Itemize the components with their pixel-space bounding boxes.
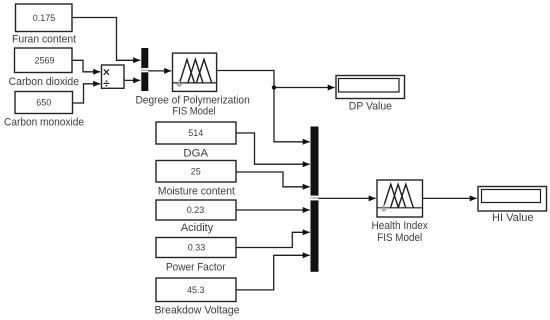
svg-text:2569: 2569 — [34, 56, 54, 66]
svg-text:Degree of Polymerization: Degree of Polymerization — [135, 94, 249, 106]
svg-text:FIS Model: FIS Model — [172, 106, 215, 118]
svg-text:Health Index: Health Index — [372, 220, 429, 232]
svg-text:Power Factor: Power Factor — [166, 261, 226, 273]
svg-text:DGA: DGA — [183, 147, 208, 159]
svg-text:45.3: 45.3 — [187, 285, 205, 295]
svg-text:HI Value: HI Value — [492, 212, 534, 224]
svg-text:650: 650 — [36, 98, 51, 108]
svg-text:0.33: 0.33 — [188, 243, 206, 253]
svg-text:Furan content: Furan content — [12, 34, 76, 46]
svg-text:DP Value: DP Value — [349, 100, 392, 112]
svg-text:FIS Model: FIS Model — [377, 232, 422, 244]
svg-text:514: 514 — [188, 128, 203, 138]
svg-text:0.175: 0.175 — [33, 13, 56, 23]
svg-text:Carbon dioxide: Carbon dioxide — [9, 76, 80, 88]
svg-text:0.23: 0.23 — [187, 205, 205, 215]
svg-text:Breakdow Voltage: Breakdow Voltage — [155, 304, 240, 316]
svg-text:Moisture content: Moisture content — [158, 185, 235, 197]
svg-text:25: 25 — [191, 167, 201, 177]
svg-text:Acidity: Acidity — [181, 222, 214, 234]
svg-text:Carbon monoxide: Carbon monoxide — [4, 117, 84, 129]
